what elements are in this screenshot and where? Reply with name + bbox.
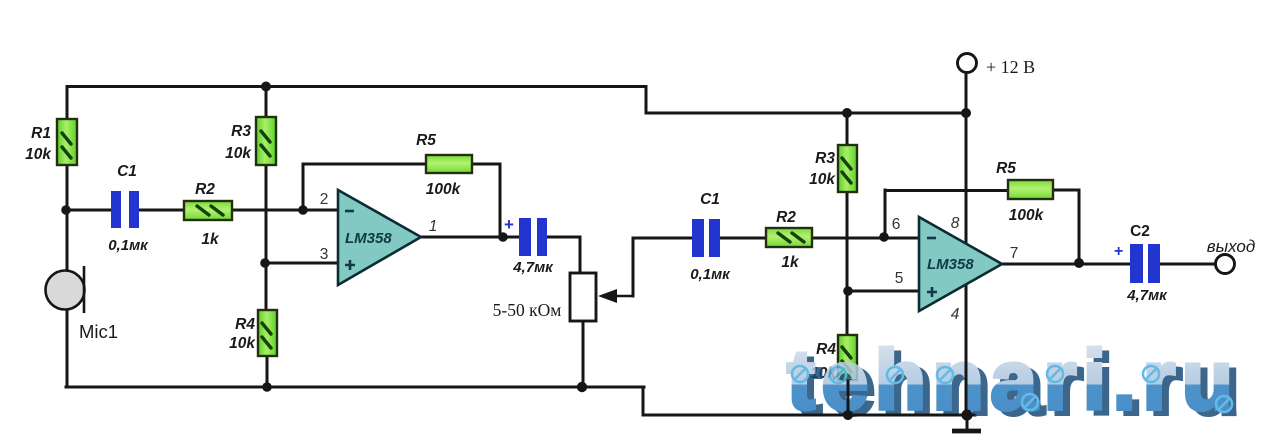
wire top-left rail (67, 85, 646, 88)
wire R4-2 bottom lead (847, 380, 850, 415)
resistor R3 stage 2 (838, 145, 857, 192)
svg-text:4,7мк: 4,7мк (1126, 287, 1168, 304)
svg-text:1k: 1k (201, 231, 220, 248)
wire bottom-right rail (over watermark) (643, 414, 975, 417)
svg-text:LM358: LM358 (927, 256, 974, 273)
node pin 3 / divider (260, 258, 270, 268)
node R4-2 / bottom rail (843, 410, 853, 420)
node output-1 (498, 232, 508, 242)
ground bar (over watermark) (952, 429, 981, 434)
ground (952, 429, 981, 434)
node pot / bottom rail (577, 382, 587, 392)
microphone Mic1 (46, 266, 85, 313)
wire C2 to output terminal (1161, 263, 1216, 266)
wire C1-2 to R2-2 (720, 237, 766, 240)
wire pin 5 (848, 290, 919, 293)
svg-text:+: + (1114, 243, 1123, 260)
wire pin 3 (266, 262, 338, 265)
svg-text:10k: 10k (225, 145, 252, 162)
wire op-amp1 output (421, 236, 519, 239)
svg-text:+ 12 В: + 12 В (986, 57, 1035, 77)
wire +12V power line (965, 71, 968, 415)
wire feedback-1 vertical (302, 164, 305, 210)
wire R2-2 to op-amp pin 6 (812, 237, 919, 240)
terminal +12V (958, 54, 977, 73)
node output-2 (1074, 258, 1084, 268)
svg-text:0,1мк: 0,1мк (690, 266, 731, 283)
wire R1 bottom lead to mic (66, 165, 69, 271)
resistor R1 (57, 119, 77, 165)
svg-text:R5: R5 (416, 132, 436, 149)
wire C1 to R2 (139, 209, 184, 212)
svg-text:4,7мк: 4,7мк (512, 259, 554, 276)
svg-text:10k: 10k (25, 146, 52, 163)
resistor R5 (426, 155, 472, 173)
wire R4 bottom lead (266, 356, 269, 387)
wire power line lower segment (over watermark) (965, 360, 968, 415)
svg-text:8: 8 (951, 215, 960, 232)
svg-text:R2: R2 (776, 209, 796, 226)
resistor R2 stage 2 (766, 228, 812, 247)
svg-text:3: 3 (320, 246, 329, 263)
svg-text:1: 1 (429, 218, 438, 235)
wire feedback-2 vertical (884, 190, 887, 237)
svg-text:+: + (504, 215, 514, 234)
wire R5-2 to output node (1053, 190, 1079, 263)
resistor R5 stage 2 (1008, 180, 1053, 199)
op-amp U1 LM358 (338, 190, 421, 285)
node top rail / R3 (261, 82, 271, 92)
svg-text:10k: 10k (229, 335, 256, 352)
node R1 / C1 (61, 205, 71, 215)
wire bottom-left rail (66, 386, 644, 389)
capacitor C2 (1130, 244, 1160, 283)
wire feedback-1 horizontal (303, 163, 426, 166)
svg-text:0,1мк: 0,1мк (108, 237, 149, 254)
svg-text:LM358: LM358 (345, 230, 392, 247)
wire potentiometer bottom lead (582, 321, 585, 387)
capacitor 4,7мк stage 1 (519, 218, 547, 256)
wire R1 top lead (66, 87, 69, 120)
resistor R2 (184, 201, 232, 220)
wire R3-2 top lead (846, 113, 849, 145)
svg-text:выход: выход (1207, 237, 1256, 256)
wire cap to potentiometer (546, 237, 580, 273)
wire bottom-right rail (643, 414, 975, 417)
svg-text:tehnari.ru: tehnari.ru (787, 333, 1233, 427)
node R4-2 / bottom rail (over watermark) (843, 410, 853, 420)
node R4 / bottom rail (262, 382, 272, 392)
wire R3 column top (265, 87, 268, 118)
svg-text:4: 4 (951, 306, 960, 323)
svg-text:100k: 100k (426, 181, 462, 198)
capacitor C1 (111, 191, 139, 228)
wire ground stem (966, 415, 969, 429)
wire feedback-2 horizontal (885, 189, 1008, 192)
terminal output (1216, 255, 1235, 274)
wire top-right rail (646, 112, 966, 115)
wire bottom rail step (642, 387, 645, 415)
resistor R4 stage 2 (838, 335, 857, 380)
wire R3-2/R4-2 column (846, 192, 849, 335)
wire mic bottom lead (66, 309, 69, 387)
capacitor C1 stage 2 (692, 219, 720, 257)
svg-text:2: 2 (320, 191, 329, 208)
svg-text:C1: C1 (117, 163, 137, 180)
resistor R3 (256, 117, 276, 165)
wire R5-1 to output node (471, 164, 500, 237)
svg-text:Mic1: Mic1 (79, 321, 118, 342)
node pin 6 / feedback (879, 232, 889, 242)
node pin 2 / feedback (298, 205, 308, 215)
svg-text:5: 5 (895, 270, 904, 287)
svg-text:C2: C2 (1130, 223, 1150, 240)
potentiometer 5-50 кОм (570, 273, 633, 321)
wire C1 branch (67, 209, 111, 212)
wire R2 to op-amp pin 2 (232, 209, 338, 212)
svg-text:1k: 1k (781, 254, 800, 271)
node power / bottom rail (over watermark) (962, 410, 973, 421)
wire top rail step (645, 87, 648, 114)
svg-text:10k: 10k (809, 171, 836, 188)
node power / bottom rail (962, 410, 973, 421)
svg-text:R1: R1 (31, 125, 51, 142)
svg-text:R2: R2 (195, 181, 215, 198)
node top rail / power (961, 108, 971, 118)
svg-text:R3: R3 (231, 123, 251, 140)
svg-text:6: 6 (892, 216, 901, 233)
svg-text:100k: 100k (1009, 207, 1045, 224)
svg-text:C1: C1 (700, 191, 720, 208)
wire R3-R4 column (265, 165, 268, 310)
svg-text:R3: R3 (815, 150, 835, 167)
resistor R4 (258, 310, 277, 356)
wire R4-2 bottom lead (over watermark) (847, 380, 850, 415)
wire wiper to C1-2 (633, 238, 692, 296)
node top rail / R3-2 (842, 108, 852, 118)
op-amp U2 LM358 (919, 217, 1002, 311)
wire op-amp2 output (1002, 263, 1130, 266)
svg-text:R4: R4 (235, 316, 255, 333)
wire ground stem (over watermark) (966, 415, 969, 429)
svg-text:R5: R5 (996, 160, 1016, 177)
node pin 5 / divider (843, 286, 853, 296)
watermark tehnari.ru (787, 333, 1240, 432)
svg-text:5-50 кОм: 5-50 кОм (493, 300, 562, 320)
svg-text:7: 7 (1010, 245, 1019, 262)
